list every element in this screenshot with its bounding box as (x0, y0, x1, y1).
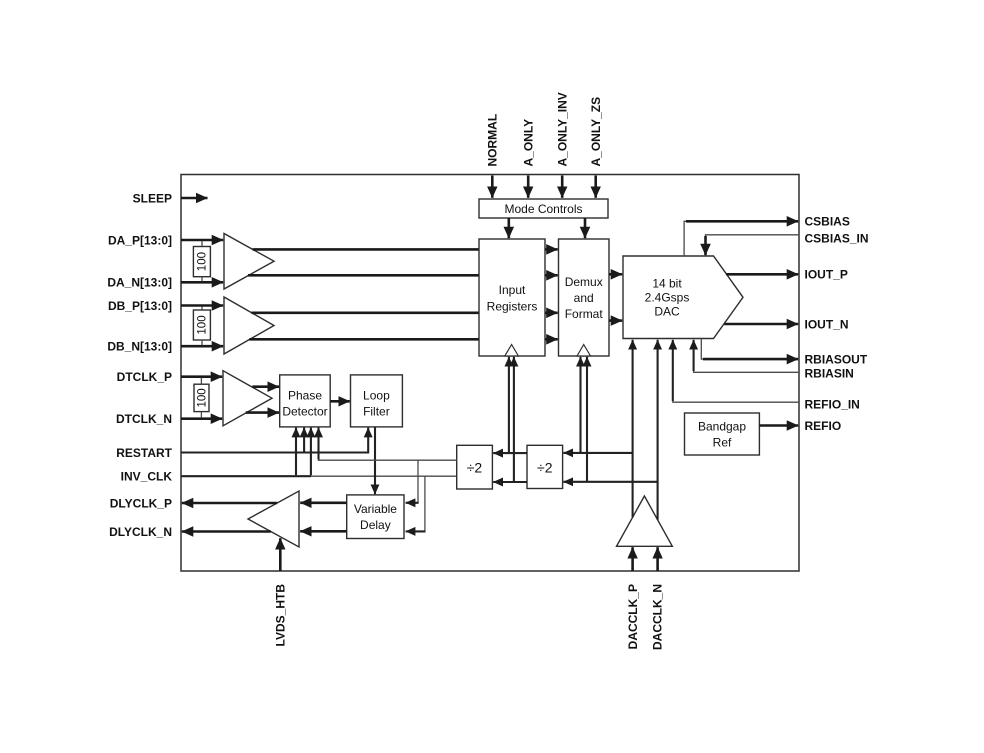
svg-text:CSBIAS_IN: CSBIAS_IN (805, 232, 869, 246)
wire Demux to DAC lower (609, 319, 622, 322)
wire Phase Detector to Loop Filter (330, 400, 350, 403)
wire resistor R1 bottom lead (201, 277, 203, 282)
svg-text:Detector: Detector (282, 405, 327, 419)
svg-text:A_ONLY_INV: A_ONLY_INV (556, 92, 570, 166)
svg-text:DLYCLK_P: DLYCLK_P (110, 496, 172, 510)
wire Input Registers clock A (508, 357, 510, 453)
svg-text:NORMAL: NORMAL (486, 114, 500, 167)
wire divider1 lower tap to Variable Delay lower (424, 476, 426, 531)
svg-text:LVDS_HTB: LVDS_HTB (274, 584, 288, 647)
wire REFIO to pin (759, 424, 798, 427)
buffer amplifier for DTCLK inputs (223, 371, 272, 426)
wire Mode Controls to Demux (584, 218, 587, 238)
wire DB_N into buffer (181, 345, 223, 348)
svg-text:Loop: Loop (363, 389, 390, 403)
wire Input Registers to Demux bit 2 (545, 311, 558, 314)
svg-text:A_ONLY: A_ONLY (522, 119, 536, 167)
block Demux and Format (559, 239, 610, 356)
buffer DLYCLK output driver (248, 491, 299, 547)
svg-text:Phase: Phase (288, 389, 322, 403)
svg-text:DA_P[13:0]: DA_P[13:0] (108, 233, 172, 247)
svg-text:DTCLK_P: DTCLK_P (117, 370, 172, 384)
wire DACCLK_P into buffer (631, 547, 634, 571)
wire Input Registers to Demux bit 0 (545, 248, 558, 251)
buffer amplifier for DB inputs (224, 297, 274, 354)
svg-text:RESTART: RESTART (116, 446, 172, 460)
wire Demux clock B (586, 357, 588, 482)
svg-text:SLEEP: SLEEP (133, 191, 172, 205)
wire divider1 output to Phase Detector (319, 431, 457, 460)
wire RBIASOUT arrow to pin (703, 358, 798, 361)
wire CSBIAS_IN arrow into DAC (704, 236, 707, 255)
svg-text:DLYCLK_N: DLYCLK_N (109, 525, 172, 539)
wire DTCLK buffer to Phase Detector lower (246, 411, 279, 414)
svg-text:DACCLK_N: DACCLK_N (650, 584, 664, 650)
svg-text:CSBIAS: CSBIAS (805, 215, 850, 229)
wire DACCLK to divider2 lower (563, 481, 657, 483)
outer border of functional block diagram (181, 175, 799, 572)
wire DA_P into buffer (181, 239, 223, 242)
svg-text:100: 100 (197, 315, 209, 334)
svg-text:REFIO_IN: REFIO_IN (805, 398, 860, 412)
wire A_ONLY_INV into Mode Controls (561, 176, 564, 198)
svg-text:IOUT_N: IOUT_N (805, 317, 849, 331)
wire DACCLK_N into buffer (656, 547, 659, 571)
buffer amplifier for DA inputs (224, 234, 274, 290)
arrow divider1 output into Phase Detector (317, 428, 319, 460)
wire DTCLK buffer to Phase Detector upper (252, 385, 279, 388)
wire Loop Filter to Variable Delay (374, 427, 376, 494)
svg-text:Input: Input (499, 283, 526, 297)
wire LVDS_HTB into driver (279, 538, 282, 571)
svg-text:DB_P[13:0]: DB_P[13:0] (108, 299, 172, 313)
wire CSBIAS from DAC top (684, 221, 795, 256)
resistor R3 100 ohm (194, 384, 209, 411)
svg-text:RBIASIN: RBIASIN (805, 367, 854, 381)
wire DB_P data to Input Registers (252, 311, 480, 314)
wire Variable Delay to driver upper (300, 501, 347, 504)
wire DAC clock P vertical (632, 340, 634, 518)
block Input Registers (479, 239, 545, 356)
wire A_ONLY into Mode Controls (527, 176, 530, 198)
svg-text:14 bit: 14 bit (652, 276, 682, 290)
block clock divider 2 (527, 445, 563, 488)
wire DACCLK to divider2 upper (563, 452, 632, 454)
wire INV_CLK branch 2 into Phase Detector (310, 428, 312, 476)
wire resistor R3 bottom lead (200, 412, 202, 418)
wire RBIASOUT from DAC bottom (701, 339, 710, 360)
svg-text:DA_N[13:0]: DA_N[13:0] (107, 276, 172, 290)
block Phase Detector (280, 375, 331, 427)
block 14 bit 2.4Gsps DAC core (623, 256, 743, 339)
wire RESTART branch into Phase Detector (303, 428, 305, 452)
wire resistor R1 top lead (201, 241, 203, 247)
wire divider1 output tap to Variable Delay upper (417, 460, 419, 503)
svg-text:2.4Gsps: 2.4Gsps (645, 290, 690, 304)
arrow into Variable Delay lower (406, 530, 426, 532)
wire Input Registers to Demux bit 1 (545, 274, 558, 277)
svg-text:IOUT_P: IOUT_P (805, 268, 848, 282)
wire CSBIAS arrow to pin (686, 220, 798, 223)
svg-text:Bandgap: Bandgap (698, 420, 746, 434)
wire Input Registers clock B (513, 357, 515, 482)
svg-text:REFIO: REFIO (805, 419, 842, 433)
svg-text:DACCLK_P: DACCLK_P (626, 584, 640, 649)
block Variable Delay (347, 495, 404, 539)
wire SLEEP stub arrow (181, 197, 208, 200)
wire RBIASIN from pin (694, 362, 799, 372)
svg-text:RBIASOUT: RBIASOUT (805, 352, 868, 366)
wire REFIO_IN from pin (673, 396, 799, 402)
wire Demux clock A (579, 357, 581, 453)
svg-text:÷2: ÷2 (537, 459, 553, 475)
wire Variable Delay to driver lower (300, 530, 347, 533)
arrow into Variable Delay upper (406, 502, 419, 504)
svg-text:DAC: DAC (654, 304, 680, 318)
block Bandgap Ref (685, 413, 760, 455)
svg-text:A_ONLY_ZS: A_ONLY_ZS (589, 97, 603, 167)
wire divider2 to divider1 lower (493, 481, 527, 483)
resistor R1 100 ohm (193, 247, 210, 277)
wire INV_CLK branch 1 into Phase Detector (295, 428, 297, 476)
wire Input Registers to Demux bit 3 (545, 338, 558, 341)
block Mode Controls (479, 199, 608, 218)
svg-text:INV_CLK: INV_CLK (121, 470, 173, 484)
wire resistor R3 top lead (200, 378, 202, 385)
svg-text:Delay: Delay (360, 518, 391, 532)
block clock divider 1 (457, 445, 493, 489)
wire Mode Controls to Input Registers (507, 218, 510, 238)
block Loop Filter (351, 375, 403, 427)
wire NORMAL into Mode Controls (491, 176, 494, 198)
wire REFIO_IN arrow into DAC (672, 340, 674, 401)
svg-text:DTCLK_N: DTCLK_N (116, 412, 172, 426)
svg-text:Format: Format (565, 307, 604, 321)
wire DB_N data to Input Registers (249, 338, 479, 341)
svg-text:Filter: Filter (363, 405, 390, 419)
svg-text:Demux: Demux (565, 275, 603, 289)
wire divider2 to divider1 upper (493, 452, 527, 454)
wire DLYCLK_N to pin (182, 530, 271, 533)
svg-text:100: 100 (196, 388, 208, 407)
svg-text:Variable: Variable (354, 502, 397, 516)
wire resistor R2 top lead (201, 307, 203, 311)
clock wedge on Input Registers (505, 345, 519, 357)
svg-text:and: and (574, 291, 594, 305)
wire INV_CLK (181, 475, 311, 477)
buffer DACCLK input (617, 496, 673, 546)
wire IOUT_P to pin (726, 273, 798, 276)
svg-text:100: 100 (197, 252, 209, 271)
wire CSBIAS_IN from pin (706, 235, 800, 253)
wire DTCLK_P into buffer (181, 375, 222, 378)
wire DA_N into buffer (181, 281, 223, 284)
svg-text:Mode Controls: Mode Controls (504, 202, 582, 216)
wire DB_P into buffer (181, 304, 223, 307)
wire DTCLK_N into buffer (181, 417, 222, 420)
wire DA_N data to Input Registers (248, 274, 479, 277)
wire DAC clock N vertical (657, 340, 659, 520)
wire INV_CLK to divider input (311, 475, 457, 477)
wire DA_P data to Input Registers (253, 248, 479, 251)
clock wedge on Demux (577, 345, 591, 357)
svg-text:Registers: Registers (487, 299, 538, 313)
resistor R2 100 ohm (193, 310, 210, 340)
wire RBIASIN arrow into DAC (693, 340, 695, 371)
wire A_ONLY_ZS into Mode Controls (594, 176, 597, 198)
wire RESTART to Loop Filter (181, 428, 368, 453)
wire resistor R2 bottom lead (201, 340, 203, 345)
svg-text:DB_N[13:0]: DB_N[13:0] (107, 340, 172, 354)
svg-text:÷2: ÷2 (467, 459, 483, 475)
wire IOUT_N to pin (724, 323, 798, 326)
svg-text:Ref: Ref (713, 436, 732, 450)
wire DLYCLK_P to pin (182, 502, 277, 505)
wire Demux to DAC upper (609, 273, 622, 276)
